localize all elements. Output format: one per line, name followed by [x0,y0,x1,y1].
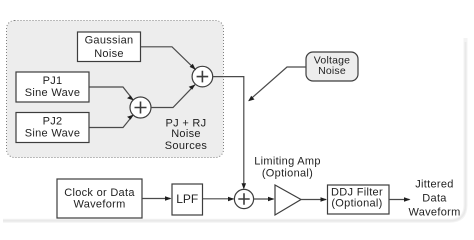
label PJ + RJ Noise Sources [165,118,208,152]
block DDJ Filter (Optional) [328,185,390,214]
wire PJ2 to S1 [90,115,134,128]
block PJ1 Sine Wave [16,72,89,102]
svg-text:Waveform: Waveform [73,199,125,211]
wire limiting amp to DDJ Filter [301,197,327,202]
block Voltage Noise [306,52,358,81]
svg-text:Limiting Amp: Limiting Amp [254,156,321,168]
block Clock or Data Waveform [57,179,142,218]
svg-text:Sine Wave: Sine Wave [25,127,80,139]
svg-text:Noise: Noise [94,48,124,60]
wire DDJ Filter to output [389,197,410,202]
wire S3 to limiting amp [254,197,275,202]
summing junction S3 (main path) [234,189,253,208]
wire Gaussian Noise to S2 [141,47,196,70]
svg-text:Noise: Noise [171,128,201,140]
limiting amp triangle [275,185,301,215]
wire PJ1 to S1 [90,87,134,100]
svg-text:Clock or Data: Clock or Data [64,187,135,199]
block Gaussian Noise [78,32,141,62]
svg-text:(Optional): (Optional) [331,197,382,209]
label Jittered Data Waveform [408,178,460,218]
svg-text:Data: Data [422,192,447,204]
svg-text:Gaussian: Gaussian [85,34,134,46]
svg-text:Sources: Sources [165,140,208,152]
summing junction S1 (PJ1+PJ2) [130,97,151,118]
noise sources dashed container [7,21,224,158]
svg-text:Waveform: Waveform [408,206,460,218]
wire Clock box to LPF [142,196,171,201]
svg-text:Sine Wave: Sine Wave [25,87,80,99]
block PJ2 Sine Wave [16,113,89,143]
wire Voltage Noise to vertical noise wire [248,67,306,101]
label Limiting Amp (Optional) [254,156,321,180]
wire LPF to S3 [203,197,234,202]
svg-text:Jittered: Jittered [415,178,453,190]
svg-text:Noise: Noise [318,65,346,77]
svg-text:LPF: LPF [176,192,198,206]
svg-text:PJ1: PJ1 [43,75,63,87]
svg-text:PJ2: PJ2 [43,116,63,128]
summing junction S2 (RJ+PJ) [192,66,213,87]
wire S2 output to S3 (right then down) [213,77,246,190]
svg-text:(Optional): (Optional) [262,168,313,180]
wire S1 to S2 [151,85,195,108]
block LPF [172,184,203,215]
